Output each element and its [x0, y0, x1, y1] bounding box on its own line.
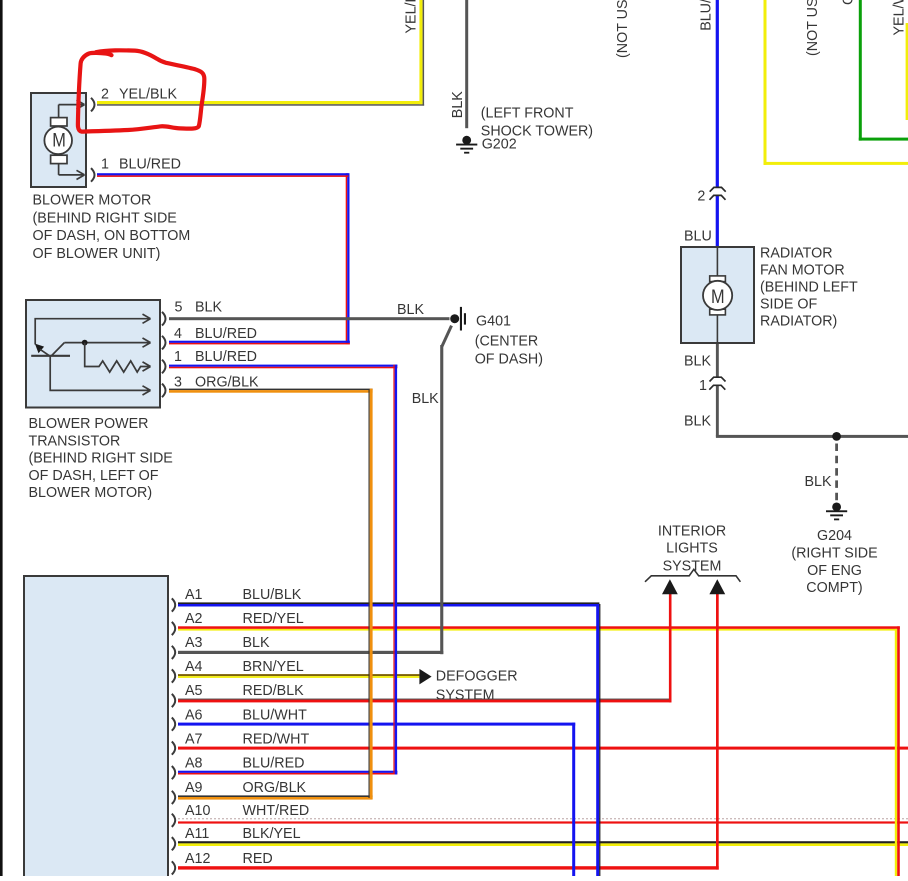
svg-text:OF DASH, LEFT OF: OF DASH, LEFT OF [29, 468, 159, 484]
svg-text:(CENTER: (CENTER [475, 334, 539, 350]
svg-text:(NOT USED): (NOT USED) [615, 0, 631, 58]
svg-text:A12: A12 [185, 851, 210, 867]
svg-text:1: 1 [699, 378, 707, 394]
svg-text:2: 2 [697, 189, 705, 205]
svg-text:RADIATOR: RADIATOR [760, 246, 833, 262]
svg-text:A11: A11 [185, 826, 209, 842]
svg-text:SIDE OF: SIDE OF [760, 297, 817, 313]
svg-text:RED/YEL: RED/YEL [243, 611, 304, 627]
svg-text:A7: A7 [185, 731, 203, 747]
svg-text:ORG/BLK: ORG/BLK [195, 375, 259, 391]
svg-text:SYSTEM: SYSTEM [663, 559, 722, 575]
svg-text:A2: A2 [185, 611, 203, 627]
svg-text:BLU: BLU [684, 229, 712, 245]
svg-text:BLK: BLK [243, 635, 270, 651]
svg-text:G401: G401 [476, 314, 511, 330]
svg-text:A3: A3 [185, 635, 203, 651]
svg-text:M: M [711, 286, 725, 308]
svg-text:BRN/YEL: BRN/YEL [243, 659, 304, 675]
svg-text:G202: G202 [482, 136, 517, 152]
svg-text:(NOT USED): (NOT USED) [805, 0, 821, 56]
svg-text:ORG/BLK: ORG/BLK [243, 780, 307, 796]
svg-text:A10: A10 [185, 803, 210, 819]
svg-text:BLU/WHT: BLU/WHT [699, 0, 715, 31]
svg-text:OF DASH, ON BOTTOM: OF DASH, ON BOTTOM [33, 228, 191, 244]
svg-text:BLK: BLK [195, 300, 222, 316]
svg-text:BLU/WHT: BLU/WHT [243, 707, 308, 723]
svg-text:SYSTEM: SYSTEM [436, 688, 495, 704]
svg-text:1: 1 [101, 156, 109, 172]
svg-text:BLU/BLK: BLU/BLK [243, 587, 302, 603]
svg-text:BLU/RED: BLU/RED [119, 156, 181, 172]
svg-text:(RIGHT SIDE: (RIGHT SIDE [791, 546, 877, 562]
svg-text:2: 2 [101, 86, 109, 102]
svg-text:A6: A6 [185, 707, 203, 723]
svg-text:BLK: BLK [412, 391, 439, 407]
svg-text:(LEFT FRONT: (LEFT FRONT [481, 106, 574, 122]
svg-text:GRN: GRN [841, 0, 857, 5]
svg-text:4: 4 [174, 326, 182, 342]
svg-text:BLOWER POWER: BLOWER POWER [29, 416, 149, 432]
svg-text:RED: RED [243, 851, 273, 867]
svg-text:BLU/RED: BLU/RED [243, 755, 305, 771]
svg-text:YEL/BLK: YEL/BLK [119, 86, 177, 102]
svg-text:DEFOGGER: DEFOGGER [436, 669, 518, 685]
svg-text:BLU/RED: BLU/RED [195, 326, 257, 342]
svg-text:BLK: BLK [397, 302, 424, 318]
svg-text:OF BLOWER UNIT): OF BLOWER UNIT) [33, 246, 161, 262]
svg-text:A5: A5 [185, 683, 203, 699]
svg-text:RED/BLK: RED/BLK [243, 683, 305, 699]
svg-text:(BEHIND RIGHT SIDE: (BEHIND RIGHT SIDE [33, 210, 177, 226]
svg-text:A8: A8 [185, 755, 203, 771]
svg-text:A9: A9 [185, 780, 203, 796]
svg-text:LIGHTS: LIGHTS [666, 541, 718, 557]
svg-text:OF DASH): OF DASH) [475, 351, 543, 367]
svg-text:(BEHIND LEFT: (BEHIND LEFT [760, 280, 858, 296]
svg-text:COMPT): COMPT) [806, 580, 862, 596]
svg-text:YEL/WHT: YEL/WHT [892, 0, 908, 36]
svg-text:3: 3 [174, 375, 182, 391]
svg-text:M: M [52, 129, 66, 151]
svg-text:A4: A4 [185, 659, 203, 675]
svg-text:BLK: BLK [450, 91, 466, 118]
svg-text:BLOWER MOTOR: BLOWER MOTOR [33, 193, 152, 209]
svg-text:BLOWER MOTOR): BLOWER MOTOR) [29, 485, 153, 501]
svg-text:BLK: BLK [684, 354, 711, 370]
svg-text:FAN MOTOR: FAN MOTOR [760, 263, 845, 279]
svg-text:(BEHIND RIGHT SIDE: (BEHIND RIGHT SIDE [29, 451, 173, 467]
svg-text:1: 1 [174, 349, 182, 365]
svg-text:G204: G204 [817, 528, 852, 544]
svg-text:WHT/RED: WHT/RED [243, 803, 310, 819]
svg-text:INTERIOR: INTERIOR [658, 524, 726, 540]
svg-text:BLU/RED: BLU/RED [195, 349, 257, 365]
svg-text:RED/WHT: RED/WHT [243, 731, 310, 747]
svg-text:YEL/BLK: YEL/BLK [404, 0, 420, 34]
svg-text:5: 5 [175, 300, 183, 316]
svg-text:BLK/YEL: BLK/YEL [243, 826, 301, 842]
svg-text:TRANSISTOR: TRANSISTOR [29, 433, 121, 449]
svg-text:RADIATOR): RADIATOR) [760, 314, 837, 330]
svg-text:OF ENG: OF ENG [807, 563, 862, 579]
svg-text:BLK: BLK [804, 474, 831, 490]
svg-text:A1: A1 [185, 587, 203, 603]
svg-text:BLK: BLK [684, 414, 711, 430]
